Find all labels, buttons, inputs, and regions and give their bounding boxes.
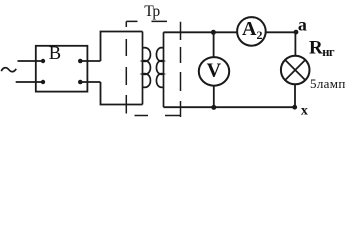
switch terminal dot 4 <box>78 80 83 85</box>
svg-text:a: a <box>298 14 307 34</box>
transformer secondary winding W2 <box>156 32 163 107</box>
AC source tilde <box>1 68 16 72</box>
svg-text:Rнг: Rнг <box>309 37 335 58</box>
svg-text:5ламп: 5ламп <box>310 76 345 91</box>
wire switch to primary top <box>80 60 100 62</box>
wire primary left upper <box>101 32 143 62</box>
switch terminal dot 3 <box>78 59 83 64</box>
ammeter A2 <box>237 17 266 46</box>
wire lamp lower <box>294 84 296 107</box>
svg-text:V: V <box>207 60 222 82</box>
screen dashed box right <box>180 22 182 117</box>
terminal x dot <box>292 105 297 110</box>
wire V branch upper <box>213 32 215 57</box>
wire primary left lower <box>101 82 143 105</box>
wire secondary top rail <box>164 31 297 33</box>
screen dashed box top <box>126 20 167 22</box>
lamp Rng circle <box>281 56 310 85</box>
svg-text:В: В <box>49 44 61 64</box>
node junction dot V bottom <box>211 105 216 110</box>
screen dashed box bottom <box>135 115 181 117</box>
wire top supply <box>18 60 44 62</box>
svg-text:x: x <box>301 104 308 119</box>
wire secondary bottom rail <box>164 106 295 108</box>
screen dashed box left <box>125 21 127 113</box>
terminal a dot <box>294 30 299 35</box>
voltmeter V <box>199 57 229 86</box>
lamp cross <box>285 60 305 80</box>
svg-text:Тр: Тр <box>144 3 160 20</box>
node junction dot V top <box>211 30 216 35</box>
wire lamp upper <box>294 31 296 56</box>
switch terminal dot 1 <box>41 59 45 63</box>
transformer primary winding W1 <box>143 32 151 105</box>
wire switch to primary bottom <box>80 81 100 83</box>
wire V branch lower <box>213 86 215 108</box>
wire bottom supply <box>16 81 43 83</box>
switch terminal dot 2 <box>41 80 45 84</box>
switch B box <box>36 46 88 92</box>
